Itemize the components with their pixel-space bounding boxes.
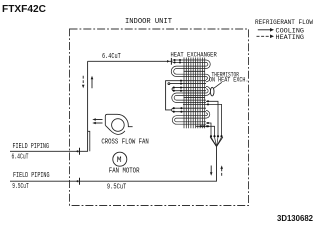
svg-text:FIELD PIPING: FIELD PIPING <box>13 143 50 151</box>
thermistor on heat exchanger <box>210 82 221 96</box>
svg-text:INDOOR UNIT: INDOOR UNIT <box>125 18 173 26</box>
heat exchanger fins <box>184 58 205 129</box>
svg-text:HEATING: HEATING <box>276 34 305 41</box>
legend REFRIGERANT FLOW <box>255 19 313 41</box>
svg-text:FIELD PIPING: FIELD PIPING <box>13 172 50 180</box>
svg-text:HEAT EXCHANGER: HEAT EXCHANGER <box>171 52 217 60</box>
cross flow fan icon <box>105 114 132 134</box>
flow arrows on 6.4 vertical: heating down (dashed) / cooling up (solid) <box>82 76 93 89</box>
distributor capillary pipes to funnel <box>183 101 222 136</box>
connector on 9.5 field pipe <box>76 178 80 185</box>
junction dots at exchanger entry <box>174 59 182 64</box>
flow arrows on funnel stem: cooling down / heating up <box>210 165 223 175</box>
pipe 6.4 entry to heat exchanger <box>88 60 173 62</box>
fan motor M1 <box>113 152 127 166</box>
junction dots at taps and funnel top <box>207 100 223 137</box>
pipe 6.4 vertical and field run <box>10 61 88 151</box>
svg-text:9.5CuT: 9.5CuT <box>107 184 126 192</box>
funnel distributor <box>210 137 223 147</box>
svg-text:M: M <box>117 156 122 165</box>
svg-text:REFRIGERANT FLOW: REFRIGERANT FLOW <box>255 19 313 26</box>
indoor unit boundary box <box>70 29 249 206</box>
svg-text:FTXF42C: FTXF42C <box>2 3 46 15</box>
connector on 6.4 field pipe <box>76 148 80 155</box>
svg-text:FAN MOTOR: FAN MOTOR <box>109 167 140 175</box>
connector on entry pipe <box>167 58 171 65</box>
svg-text:3D130682: 3D130682 <box>277 214 313 223</box>
svg-text:CROSS FLOW FAN: CROSS FLOW FAN <box>101 138 148 146</box>
svg-text:9.5CuT: 9.5CuT <box>12 183 29 191</box>
pipe from funnel down and left (9.5 line) <box>10 147 217 182</box>
fan airflow arrows <box>92 118 102 124</box>
junction dots left side <box>173 80 208 128</box>
svg-text:ON HEAT EXCH.: ON HEAT EXCH. <box>209 77 249 84</box>
svg-text:6.4CuT: 6.4CuT <box>102 53 121 61</box>
small parallel stub beside pipe <box>88 131 90 151</box>
svg-text:6.4CuT: 6.4CuT <box>12 153 29 161</box>
single-line tube rows and small U-bends <box>168 71 206 111</box>
bypass pipe on left of exchanger <box>166 81 181 110</box>
